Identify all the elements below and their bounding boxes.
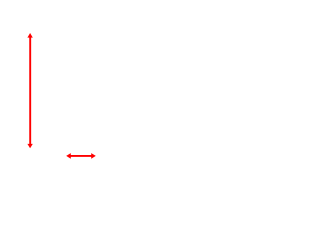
arrowhead up — [27, 33, 32, 38]
arrowhead down — [27, 144, 32, 148]
horizontal dimension arrow (double-headed, red) — [66, 153, 96, 159]
arrowhead left — [66, 153, 71, 159]
arrowhead right — [91, 153, 96, 159]
wire: horizontal shaft — [69, 155, 93, 157]
vertical dimension arrow (double-headed, red) — [27, 33, 32, 148]
wire: vertical shaft — [29, 36, 31, 146]
